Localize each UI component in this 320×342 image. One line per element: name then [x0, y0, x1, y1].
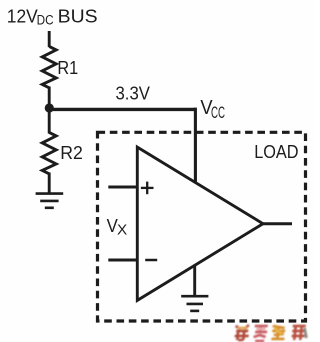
ground (op-amp) — [181, 296, 208, 311]
svg-text:R1: R1 — [57, 58, 78, 78]
svg-text:LOAD: LOAD — [254, 141, 298, 162]
resistor R1 — [42, 46, 56, 87]
label 12VDC BUS — [7, 5, 98, 27]
node junction dot — [45, 103, 54, 112]
svg-text:CC: CC — [211, 103, 225, 122]
resistor R2 — [42, 132, 56, 173]
label VX — [107, 215, 128, 239]
wire output — [262, 222, 293, 225]
svg-text:DC: DC — [37, 13, 54, 28]
dashed LOAD box — [98, 132, 306, 321]
wire inverting input — [108, 259, 137, 262]
ground (below R2) — [36, 194, 64, 208]
wire R1 to node to R2 — [48, 87, 51, 134]
wire 3.3V rail — [49, 108, 195, 111]
svg-text:3.3V: 3.3V — [116, 83, 151, 104]
plus sign — [141, 182, 154, 195]
wire VCC drop — [194, 108, 197, 182]
wire R2 to ground — [48, 173, 51, 195]
svg-text:R2: R2 — [60, 143, 83, 163]
wire op-amp ground stub — [193, 265, 196, 297]
minus sign — [145, 259, 157, 262]
svg-text:12V: 12V — [7, 5, 39, 26]
label VCC — [200, 97, 225, 122]
svg-text:BUS: BUS — [58, 5, 98, 26]
wire bus stub — [48, 31, 51, 47]
svg-text:X: X — [117, 222, 127, 239]
wire noninverting input — [108, 186, 137, 189]
watermark logo — [234, 325, 308, 341]
op-amp U1 — [137, 147, 263, 300]
